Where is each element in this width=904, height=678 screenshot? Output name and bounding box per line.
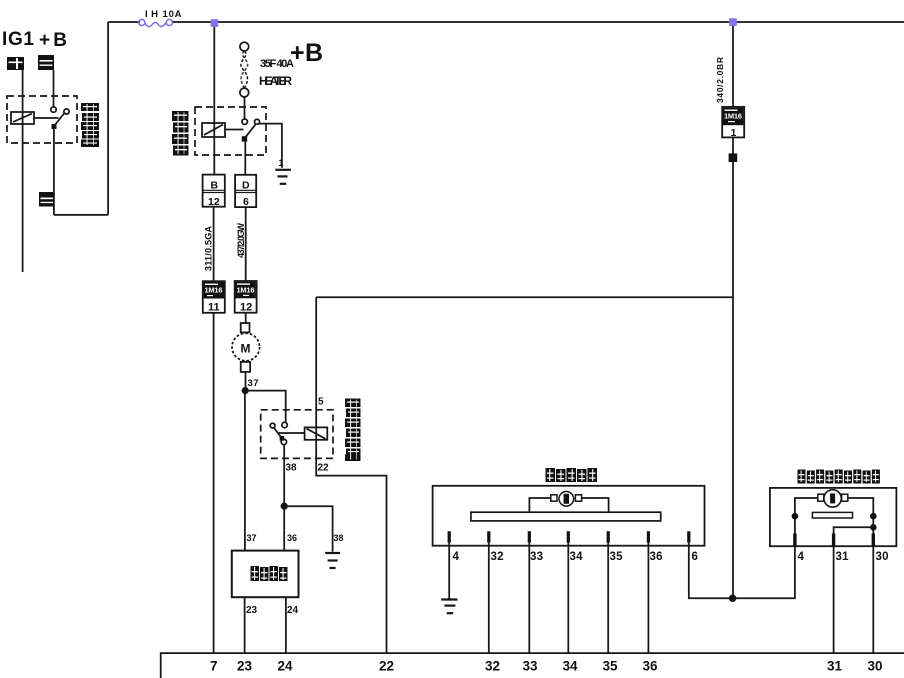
svg-text:IH: IH <box>145 9 158 20</box>
wire IG1 to relay K1 coil <box>22 70 24 112</box>
wire K3 lower contact down <box>283 445 285 507</box>
wire tap to pin31 <box>834 527 874 533</box>
svg-text:38: 38 <box>334 533 344 543</box>
wire label 311/0.5GA <box>204 226 214 272</box>
wire jog to riser <box>54 214 108 216</box>
wire pin34 to bus <box>567 543 569 653</box>
svg-text:36: 36 <box>287 533 297 543</box>
label 24 module pin <box>287 605 298 616</box>
wire pin32 to bus <box>488 543 490 653</box>
svg-text:12: 12 <box>208 196 220 208</box>
svg-text:311/0.5GA: 311/0.5GA <box>204 226 214 272</box>
resistor track <box>471 512 661 521</box>
junction <box>281 503 288 510</box>
junction right lower <box>870 524 877 531</box>
wire bus to K2 coil <box>213 27 215 175</box>
svg-text:6: 6 <box>243 196 249 208</box>
svg-text:35: 35 <box>610 551 624 563</box>
wire coil K1 down dangling <box>22 112 24 272</box>
box1 title CJK <box>546 468 598 482</box>
svg-text:437/2.0GW: 437/2.0GW <box>236 223 246 259</box>
wire motor2 right down <box>848 498 874 534</box>
label 35F 40A <box>260 58 294 70</box>
svg-text:31: 31 <box>836 551 850 563</box>
wire connector down to junction <box>732 137 734 598</box>
relay K2 contact 2 <box>255 119 260 124</box>
box2 title CJK <box>798 470 880 484</box>
svg-text:7: 7 <box>210 659 218 674</box>
ground (box1 pin4) <box>441 600 457 614</box>
wire pin31 to bus <box>833 546 835 653</box>
node +B left <box>39 30 67 51</box>
pin F9 IG1 feed <box>7 57 24 70</box>
wire module to bus 24 <box>285 597 287 653</box>
wire mid bus down to K3 coil <box>315 297 317 440</box>
svg-text:37: 37 <box>247 533 257 543</box>
svg-text:24: 24 <box>278 659 293 674</box>
connector D/6 <box>235 175 256 207</box>
svg-text:34: 34 <box>570 551 584 563</box>
box1 pin labels <box>453 551 698 563</box>
svg-text:12: 12 <box>240 302 252 314</box>
label fuse IH 10A <box>145 9 182 20</box>
label 36 module pin <box>287 533 297 543</box>
label 22 pin <box>318 463 329 474</box>
svg-text:38: 38 <box>286 463 297 474</box>
svg-text:11: 11 <box>208 302 220 314</box>
resistor track2 <box>812 512 852 518</box>
junction node (purple) right <box>729 18 737 26</box>
connector B/12 <box>203 175 225 207</box>
relay K3 arm <box>274 428 283 440</box>
svg-text:22: 22 <box>318 463 329 474</box>
svg-text:22: 22 <box>379 659 394 674</box>
ground (relay K2) <box>275 170 291 184</box>
connector 1M16/12 <box>235 281 257 313</box>
relay K3 contact pivot <box>270 423 275 428</box>
wire K2 arm to connector D <box>244 140 246 175</box>
svg-text:1: 1 <box>279 158 284 168</box>
wire motor down <box>245 372 247 387</box>
svg-text:1: 1 <box>731 127 737 139</box>
junction right <box>729 595 736 602</box>
wire pin30 to bus <box>872 546 874 653</box>
svg-text:36: 36 <box>650 551 663 563</box>
svg-text:+B: +B <box>39 30 67 51</box>
relay K3 label (CJK vertical) <box>345 399 361 462</box>
svg-text:1M16: 1M16 <box>237 285 255 294</box>
node IG1 <box>2 29 34 50</box>
svg-text:35: 35 <box>603 659 618 674</box>
relay K3 contact lower <box>281 439 286 444</box>
svg-text:M: M <box>241 342 251 356</box>
svg-text:4: 4 <box>798 551 805 563</box>
node +B right <box>290 39 323 67</box>
box1 pins <box>448 531 691 543</box>
wire coil K1 to arm <box>34 117 59 119</box>
pin 1M4 <box>39 192 55 207</box>
wire junction to box2 pin4 <box>733 546 795 598</box>
svg-text:33: 33 <box>530 551 543 563</box>
svg-text:HEATER: HEATER <box>259 74 292 88</box>
wire pin35 to bus <box>607 543 609 653</box>
relay K1 box <box>7 96 77 143</box>
relay K2 arm <box>245 124 256 138</box>
svg-text:340/2.0BR: 340/2.0BR <box>715 57 725 103</box>
wire pin33 to bus <box>528 543 530 653</box>
box2 pin labels <box>798 551 889 563</box>
mode actuator box <box>433 486 705 546</box>
fuse IH 10A <box>139 19 173 26</box>
svg-text:32: 32 <box>491 551 504 563</box>
relay K3 coil <box>305 427 328 439</box>
wire junction to K3 <box>245 391 286 423</box>
wire K2 to ground <box>259 124 282 168</box>
blower motor M <box>241 323 250 332</box>
relay K2 coil <box>202 123 225 137</box>
box2 pins <box>793 534 875 546</box>
svg-text:+B: +B <box>290 39 323 67</box>
junction left track <box>792 513 799 520</box>
svg-text:D: D <box>242 180 250 192</box>
relay K1 coil <box>11 112 34 124</box>
svg-text:10A: 10A <box>163 9 182 20</box>
wire K1 common down <box>53 126 55 215</box>
wire arm to coil <box>279 432 305 434</box>
wire B/12 to 1M16/11 <box>213 207 215 282</box>
connector 1M16/11 <box>203 281 225 313</box>
wire junction to ground branch <box>284 506 332 552</box>
label 38 ground <box>334 533 344 543</box>
fusible link 35F 40A <box>240 42 249 51</box>
junction node (purple) <box>211 19 219 27</box>
svg-text:B: B <box>211 180 219 192</box>
label 5 <box>318 397 324 408</box>
svg-text:6: 6 <box>692 551 698 563</box>
label HEATER <box>259 74 292 88</box>
label 23 module pin <box>246 605 257 616</box>
svg-text:5: 5 <box>318 397 324 408</box>
junction 37 <box>242 387 249 394</box>
svg-text:32: 32 <box>485 659 500 674</box>
wire top bus right <box>173 21 904 23</box>
wire top bus left <box>108 21 140 23</box>
junction right track <box>870 513 877 520</box>
svg-text:31: 31 <box>827 659 842 674</box>
wire label 437/2.0GW <box>236 223 246 259</box>
svg-text:30: 30 <box>876 551 889 563</box>
relay K1 contact 2 <box>64 109 69 114</box>
wire label 340/2.0BR <box>715 57 725 103</box>
svg-text:37: 37 <box>248 378 259 389</box>
svg-text:35F 40A: 35F 40A <box>260 58 294 70</box>
relay K3 box <box>261 410 333 459</box>
svg-text:4: 4 <box>453 551 460 563</box>
wire D/6 to 1M16/12 <box>245 207 247 281</box>
wire pin36 to bus <box>647 543 649 653</box>
label 1 <box>279 158 284 168</box>
svg-text:IG1: IG1 <box>2 29 34 50</box>
wire coil K2 to arm <box>225 129 244 131</box>
label 37 node <box>248 378 259 389</box>
pin F6 +B feed <box>38 55 54 70</box>
mode actuator motor <box>559 492 574 507</box>
relay K1 arm <box>55 113 65 126</box>
wire K3 coil down, jog right, down to bus 22 <box>316 440 386 653</box>
wire +B to K1 contact <box>53 70 55 107</box>
wire module to bus 23 <box>244 597 246 653</box>
wire riser to top bus <box>107 22 109 215</box>
relay K1 label (CJK vertical) <box>81 103 99 147</box>
wire motor left to track <box>529 498 550 512</box>
svg-text:33: 33 <box>523 659 538 674</box>
relay K3 contact top <box>282 422 287 427</box>
wire junction to module 36 <box>283 506 285 550</box>
relay K2 contact <box>242 119 247 124</box>
label 38 pin <box>286 463 297 474</box>
mid horizontal wire to K3 coil <box>316 296 732 298</box>
terminal square <box>729 153 738 162</box>
ground (module branch) <box>325 553 340 568</box>
module title CJK <box>251 566 288 581</box>
wire pin6 jog to junction <box>689 543 733 599</box>
connector 1M16/1 <box>722 107 744 137</box>
svg-text:36: 36 <box>643 659 658 674</box>
wire junction to module pin 37 <box>244 391 246 551</box>
svg-text:34: 34 <box>563 659 578 674</box>
svg-text:23: 23 <box>237 659 252 674</box>
relay K2 label (CJK vertical) <box>172 111 189 156</box>
bottom bus <box>161 653 904 678</box>
wire 12 to motor <box>245 313 247 323</box>
right riser from bus <box>732 26 734 107</box>
relay K1 contact <box>51 107 56 112</box>
bus pin labels <box>210 659 883 674</box>
blower resistor module box <box>232 551 299 598</box>
wire motor right to track <box>582 498 609 512</box>
label 37 module pin <box>247 533 257 543</box>
wire motor2 left down <box>795 498 818 534</box>
wire pin4 to ground <box>448 543 450 599</box>
svg-text:1M16: 1M16 <box>724 112 742 121</box>
svg-text:1M16: 1M16 <box>205 286 223 295</box>
recirculation motor <box>824 490 841 507</box>
svg-text:30: 30 <box>868 659 883 674</box>
wire 11 down to bus pin 7 <box>213 313 215 653</box>
svg-text:23: 23 <box>246 605 257 616</box>
relay K2 box <box>195 107 266 155</box>
recirculation actuator box <box>770 488 897 546</box>
wire link to K2 contact <box>244 97 246 119</box>
svg-text:24: 24 <box>287 605 298 616</box>
